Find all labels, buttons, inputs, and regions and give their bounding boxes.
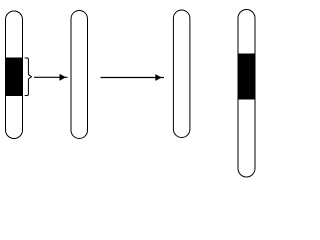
brace (right curly bracket marking the segment) <box>25 58 32 96</box>
chromosome 1 (capsule with segment to be removed) <box>6 11 23 139</box>
chromosome 3 (recipient capsule) <box>173 10 190 138</box>
chromosome 2 (capsule after removal of segment) <box>71 11 88 139</box>
chromosome 4 (longer capsule with inserted segment) <box>238 10 255 178</box>
band: inserted segment on chromosome 4 <box>238 54 256 100</box>
band: highlighted segment on chromosome 1 <box>5 58 23 97</box>
arrow 1 (from brace to chromosome 2) <box>34 74 68 81</box>
arrow 2 (from chromosome 2 to chromosome 3) <box>101 74 165 81</box>
